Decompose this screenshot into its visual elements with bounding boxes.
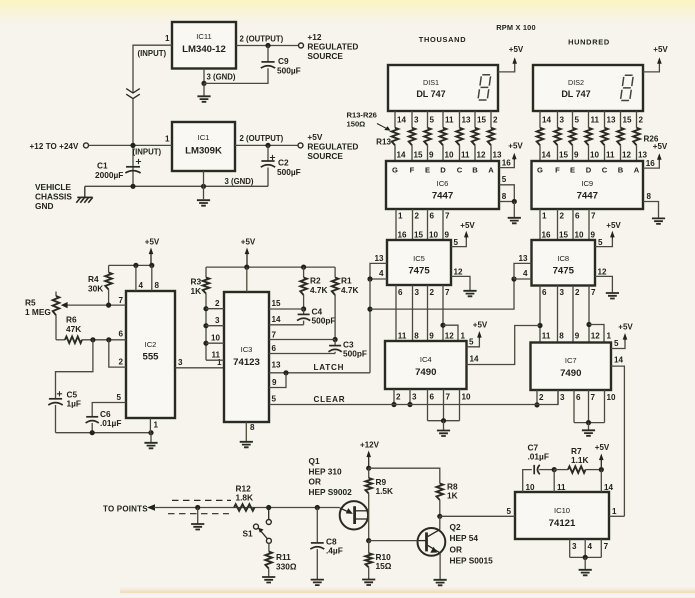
wire IC4 pin3 — [409, 389, 411, 405]
svg-text:1: 1 — [217, 358, 222, 367]
C2 top stub — [267, 145, 269, 161]
wire IC10 pin11 — [553, 470, 555, 492]
wire IC6 pin5 — [499, 185, 514, 202]
svg-text:+5V: +5V — [653, 45, 668, 54]
svg-text:E: E — [570, 165, 575, 174]
svg-text:11: 11 — [398, 332, 407, 341]
junction C8 node — [315, 505, 320, 510]
svg-text:7: 7 — [445, 288, 450, 297]
ground rail regulators — [85, 185, 268, 187]
wire IC9-IC8 column 7-9 — [588, 209, 590, 240]
svg-text:9: 9 — [272, 378, 277, 387]
R4 bottom stub — [108, 290, 110, 306]
wire Q1 base to Q2 — [369, 540, 418, 542]
IC5 7475 — [387, 240, 451, 285]
R3 bottom to pin2 column — [205, 294, 207, 361]
ground IC6 — [508, 218, 521, 224]
svg-text:15: 15 — [559, 231, 569, 240]
svg-text:+5V: +5V — [653, 142, 668, 151]
svg-text:6: 6 — [542, 288, 547, 297]
svg-text:5: 5 — [430, 115, 435, 124]
IC7 7490 — [531, 343, 612, 391]
junction pin1 rail — [148, 430, 153, 435]
svg-text:10: 10 — [211, 333, 221, 342]
+5V arrow IC7 — [623, 333, 628, 341]
junction IC10 gnd — [583, 555, 588, 560]
ground IC1 — [197, 200, 210, 206]
svg-text:+5V: +5V — [595, 443, 610, 452]
svg-text:74123: 74123 — [233, 357, 260, 368]
svg-text:+5V: +5V — [606, 221, 621, 230]
svg-text:F: F — [410, 165, 415, 174]
points wire — [154, 507, 340, 509]
IC10 74121 — [515, 492, 609, 539]
Q2 emitter gnd line — [439, 553, 441, 580]
svg-text:2: 2 — [560, 212, 565, 221]
svg-text:IC9: IC9 — [581, 179, 593, 188]
wire display pin stub R16 top — [442, 111, 444, 128]
svg-text:4: 4 — [588, 542, 593, 551]
ground IC11 — [197, 96, 210, 102]
IC4 gnd bracket — [428, 420, 460, 422]
wire display pin stub R21 top — [557, 111, 559, 128]
svg-text:500µF: 500µF — [277, 167, 301, 177]
svg-text:14: 14 — [604, 483, 614, 492]
svg-text:HUNDRED: HUNDRED — [568, 38, 610, 47]
svg-text:12: 12 — [445, 332, 455, 341]
svg-text:9: 9 — [429, 151, 434, 160]
wire DIS2 +5V — [643, 64, 659, 72]
svg-text:1: 1 — [398, 212, 403, 221]
wire IC8 pin4 — [514, 278, 532, 280]
junction C6 rail — [90, 430, 95, 435]
svg-text:74121: 74121 — [549, 518, 576, 529]
junction C4 pin15 — [301, 306, 306, 311]
resistor R4 30K — [105, 273, 112, 290]
ground IC7 — [582, 430, 595, 436]
resistor R23 150ohm — [585, 128, 592, 145]
+12V arrow — [366, 451, 371, 469]
svg-text:7447: 7447 — [432, 191, 453, 202]
svg-text:2: 2 — [493, 115, 498, 124]
wire IC3 pin2 — [206, 308, 224, 310]
points arrow head — [147, 504, 155, 510]
junction clear IC7 pin2 — [534, 402, 539, 407]
wire resistor R21 to IC9 — [557, 145, 559, 161]
wire IC6-IC5 column 1-16 — [395, 209, 397, 240]
svg-text:+12 TO +24V: +12 TO +24V — [30, 142, 80, 151]
svg-text:10: 10 — [526, 483, 536, 492]
+5V arrow DIS2 — [657, 57, 662, 64]
resistor R19 150ohm — [488, 128, 495, 145]
IC7 gnd stub — [588, 423, 590, 431]
resistor R15 150ohm — [424, 128, 431, 145]
C4 top stub — [303, 309, 305, 314]
svg-text:DIS2: DIS2 — [568, 78, 584, 87]
svg-text:7475: 7475 — [408, 266, 430, 277]
wire IC8 pin12 gnd — [595, 276, 612, 293]
svg-text:+5V: +5V — [473, 320, 488, 329]
svg-text:12: 12 — [454, 268, 464, 277]
svg-text:8: 8 — [647, 192, 652, 201]
svg-text:6: 6 — [576, 393, 581, 402]
R9 top stub — [368, 468, 370, 478]
output terminal +12 — [299, 43, 304, 48]
svg-text:11: 11 — [445, 115, 454, 124]
svg-text:IC3: IC3 — [241, 345, 253, 354]
R5 wiper arrow — [61, 302, 68, 308]
svg-text:8: 8 — [250, 423, 255, 432]
junction IC4 pin12 bracket — [440, 323, 445, 328]
wire IC10 pin4 — [584, 539, 586, 557]
junction IC4 gnd — [441, 418, 446, 423]
svg-text:10: 10 — [462, 393, 472, 402]
svg-text:7: 7 — [591, 288, 596, 297]
display DIS1 DL747 — [388, 65, 498, 111]
wire IC7 pin14 to IC10 pin1 — [611, 366, 624, 516]
wire resistor R17 to IC6 — [459, 145, 461, 161]
Q2 collector line — [439, 516, 441, 529]
+5V arrow IC9 — [657, 153, 662, 160]
wire display pin stub R13 top — [394, 111, 396, 128]
IC3 +5V rail — [206, 266, 335, 268]
junction IC11 gnd node — [201, 81, 206, 86]
wire IC8-IC7 column 6-11 — [539, 286, 541, 343]
capacitor C2 — [261, 155, 275, 167]
wire resistor R22 to IC9 — [572, 145, 574, 161]
wire IC6 pin8 — [499, 201, 514, 203]
svg-text:11: 11 — [461, 151, 470, 160]
svg-text:S1: S1 — [243, 529, 254, 539]
svg-text:7: 7 — [591, 212, 596, 221]
svg-text:5: 5 — [272, 395, 277, 404]
svg-text:G: G — [537, 165, 543, 174]
IC9 7447 — [532, 161, 644, 209]
resistor R10 15ohm — [365, 553, 372, 567]
R9 to Q1 collector line — [368, 494, 370, 541]
capacitor C8 .4uF — [310, 543, 324, 549]
svg-text:5: 5 — [469, 337, 474, 346]
junction pin2 branch — [106, 337, 111, 342]
wire IC4 pin7 to gnd bracket — [443, 389, 445, 421]
wire resistor R18 to IC6 — [474, 145, 476, 161]
wire IC3 pin16 — [246, 267, 248, 292]
junction pin14 +5V — [599, 467, 604, 472]
wire IC8-IC7 column 2-9 — [572, 286, 574, 343]
junction latch node — [367, 307, 372, 312]
output terminal +5V — [298, 143, 303, 148]
wire C2 bottom — [267, 168, 269, 187]
wire resistor R15 to IC6 — [427, 145, 429, 161]
svg-text:DL 747: DL 747 — [416, 89, 445, 99]
wire display pin stub R26 top — [636, 111, 638, 128]
svg-text:IC2: IC2 — [145, 340, 157, 349]
IC2 bottom rail — [56, 432, 152, 434]
latch wire IC3 pin13 — [269, 372, 370, 374]
wire IC2 pin4 — [135, 265, 137, 291]
+5V arrow DIS1 — [512, 57, 517, 64]
wire IC7 pin6 to gnd bracket — [573, 390, 575, 423]
wire C6 to rail — [91, 423, 93, 433]
svg-text:+5V: +5V — [460, 221, 475, 230]
R1 top stub — [334, 267, 336, 277]
svg-text:R121.8K: R121.8K — [236, 484, 254, 503]
svg-text:2: 2 — [215, 299, 220, 308]
svg-text:5: 5 — [575, 115, 580, 124]
svg-text:15: 15 — [477, 115, 487, 124]
wire IC10 pin5 — [440, 515, 515, 517]
wire display pin stub R23 top — [588, 111, 590, 128]
R8 bottom line — [439, 500, 441, 516]
wire IC7 pin10 to gnd bracket — [604, 390, 606, 423]
junction pin10 — [203, 341, 208, 346]
svg-text:6: 6 — [398, 288, 403, 297]
svg-text:13: 13 — [493, 151, 503, 160]
wire IC9-IC8 column 6-10 — [572, 209, 574, 240]
wire IC6 pin16 — [499, 160, 514, 168]
svg-text:LM340-12: LM340-12 — [182, 44, 226, 55]
svg-text:11: 11 — [591, 115, 600, 124]
R5 top stub — [55, 292, 57, 297]
IC3 74123 — [224, 292, 269, 422]
svg-text:1: 1 — [461, 332, 466, 341]
wire IC6-IC5 column 2-15 — [412, 209, 414, 240]
junction IC7 pin12 bracket — [586, 322, 591, 327]
shield dash lower — [168, 513, 229, 515]
transistor Q2 — [418, 528, 446, 556]
svg-text:3: 3 — [215, 316, 220, 325]
svg-text:2: 2 — [430, 288, 435, 297]
R5 bottom lead — [55, 315, 57, 340]
svg-text:15: 15 — [414, 231, 424, 240]
capacitor C1 — [125, 159, 141, 173]
svg-text:+12V: +12V — [360, 441, 380, 450]
wire IC4 pin10 to gnd bracket — [459, 389, 461, 421]
svg-text:14: 14 — [614, 356, 624, 365]
svg-text:9: 9 — [445, 231, 450, 240]
svg-text:7: 7 — [118, 296, 123, 305]
svg-text:15: 15 — [559, 151, 569, 160]
junction rail R2 — [301, 265, 306, 270]
svg-text:+5V: +5V — [618, 322, 633, 331]
svg-text:IC7: IC7 — [565, 356, 577, 365]
C4 bottom stub — [303, 321, 305, 325]
wire pin11 to R7 — [554, 469, 568, 471]
vehicle chassis ground symbol — [76, 186, 92, 203]
R11 top stub — [268, 543, 270, 551]
svg-text:5: 5 — [454, 238, 459, 247]
R10 gnd stub — [368, 567, 370, 579]
svg-text:C1: C1 — [97, 161, 108, 171]
wire DIS1 +5V — [498, 64, 515, 72]
resistor R25 150ohm — [617, 128, 624, 145]
ground IC2 — [144, 443, 157, 449]
junction S1 node — [266, 505, 271, 510]
IC2 +5V rail — [109, 264, 152, 266]
wire IC7 pin3 — [557, 390, 559, 405]
junction rail pin16 — [244, 265, 249, 270]
svg-text:7475: 7475 — [553, 266, 575, 277]
svg-text:8: 8 — [502, 192, 507, 201]
svg-text:15: 15 — [272, 299, 282, 308]
wire input to IC1 pin1 — [89, 144, 172, 146]
wire resistor R19 to IC6 — [490, 145, 492, 161]
capacitor C4 500pF — [297, 314, 310, 320]
svg-text:G: G — [392, 165, 398, 174]
svg-text:5: 5 — [116, 393, 121, 402]
svg-text:3: 3 — [178, 358, 183, 367]
junction pin2 — [203, 306, 208, 311]
svg-text:16: 16 — [502, 158, 512, 167]
svg-text:3: 3 — [415, 288, 420, 297]
svg-text:IC1: IC1 — [198, 133, 210, 142]
ground IC10 — [579, 570, 592, 576]
wire IC10 pin10 to C7 — [523, 470, 532, 492]
svg-text:TO POINTS: TO POINTS — [103, 505, 148, 514]
svg-text:C: C — [457, 165, 463, 174]
wire C7 to pin11 — [539, 469, 554, 471]
junction Q1-Q2 base node — [366, 538, 371, 543]
+5V arrow IC5 — [464, 231, 469, 239]
junction IC1 pin3 ground — [201, 184, 206, 189]
wire IC4 pin6 to gnd bracket — [427, 389, 429, 421]
wire IC4 pin2 — [393, 389, 395, 405]
svg-text:1: 1 — [154, 421, 159, 430]
capacitor C6 .01uF — [86, 417, 99, 423]
wire IC3 pin14 — [269, 324, 304, 326]
svg-text:2 (OUTPUT): 2 (OUTPUT) — [240, 35, 284, 44]
svg-text:555: 555 — [142, 352, 159, 363]
svg-text:14: 14 — [470, 355, 480, 364]
capacitor C9 — [261, 62, 275, 68]
svg-text:C9: C9 — [278, 56, 289, 66]
resistor R9 1.5K — [365, 478, 372, 494]
svg-text:3: 3 — [412, 393, 417, 402]
svg-text:1: 1 — [607, 332, 612, 341]
wire IC5 pin13 — [370, 263, 387, 279]
svg-text:IC6: IC6 — [437, 179, 449, 188]
wire IC8-IC7 column 7-12 — [588, 286, 590, 343]
junction C3 pin7 — [333, 337, 338, 342]
IC4 gnd stub — [443, 421, 445, 431]
IC8 7475 — [532, 240, 596, 286]
junction clear IC4 pin3 — [407, 402, 412, 407]
resistor R12 1.8K — [234, 504, 255, 511]
svg-text:13: 13 — [462, 115, 472, 124]
wire IC7 pin2 — [536, 390, 538, 405]
wire IC2 pin1 — [149, 418, 151, 433]
wire +12V to R8 — [369, 468, 440, 483]
junction R4 pin7 — [106, 303, 111, 308]
+5V arrow IC3 — [245, 248, 250, 268]
+5V arrow IC2 — [149, 248, 154, 266]
svg-text:4: 4 — [139, 281, 144, 290]
svg-text:6: 6 — [575, 212, 580, 221]
wire IC1 pin3 — [203, 171, 205, 186]
svg-text:D: D — [586, 165, 592, 174]
wire IC9 pin16 — [643, 161, 659, 169]
junction points gnd — [195, 505, 200, 510]
svg-text:2: 2 — [539, 393, 544, 402]
wire resistor R23 to IC9 — [588, 145, 590, 161]
IC10 gnd bracket — [570, 556, 602, 558]
wire resistor R14 to IC6 — [411, 145, 413, 161]
resistor R7 1.1K — [568, 466, 586, 473]
capacitor C7 .01uF — [534, 465, 540, 474]
ground R10 — [362, 580, 375, 586]
svg-text:11: 11 — [606, 151, 615, 160]
svg-text:11: 11 — [557, 483, 566, 492]
junction C9 top — [265, 43, 270, 48]
resistor R24 150ohm — [601, 128, 608, 145]
svg-text:1: 1 — [542, 212, 547, 221]
svg-text:DL 747: DL 747 — [561, 89, 590, 99]
junction R8 IC10 pin5 — [437, 514, 442, 519]
ground IC8 pin12 — [606, 293, 619, 299]
C3 bottom stub — [334, 352, 336, 354]
junction pin9 latch — [283, 370, 288, 375]
latch to IC8 wire — [370, 279, 514, 309]
S1 switch — [254, 508, 272, 544]
IC1 LM309K regulator — [172, 122, 235, 171]
R11 gnd stub — [268, 569, 270, 578]
wire IC8-IC7 column 3-8 — [557, 286, 559, 343]
wire IC3 pin7 — [269, 339, 335, 341]
wire IC3 pin10 — [206, 342, 224, 344]
junction C1 ground — [130, 184, 135, 189]
resistor R13 150ohm — [392, 128, 399, 145]
svg-text:B: B — [618, 165, 624, 174]
ground stub IC11 — [203, 83, 205, 96]
svg-text:8: 8 — [559, 332, 564, 341]
svg-text:11: 11 — [542, 332, 551, 341]
wire C5 branch — [56, 340, 93, 399]
wire IC9-IC8 column 1-16 — [539, 209, 541, 240]
svg-text:1: 1 — [165, 135, 170, 144]
wire IC3 pin3 — [206, 325, 224, 327]
svg-text:A: A — [634, 165, 640, 174]
wire IC3 pin11 — [206, 359, 224, 361]
svg-text:C2: C2 — [278, 158, 289, 168]
svg-text:13: 13 — [607, 115, 617, 124]
ground C8 — [311, 580, 324, 586]
wire resistor R20 to IC9 — [539, 145, 541, 161]
wire IC4 pin5 +5V — [467, 339, 480, 347]
svg-text:3: 3 — [560, 393, 565, 402]
svg-text:9: 9 — [591, 231, 596, 240]
wire R7 to pin14 — [586, 469, 602, 471]
junction IC8 pin4-13 — [511, 276, 516, 281]
wire IC10 pin14 — [600, 470, 602, 492]
wire IC10 pin7 — [600, 539, 602, 557]
junction clear IC4 pin2 — [391, 402, 396, 407]
+5V arrow IC8 — [610, 231, 615, 239]
svg-text:(INPUT): (INPUT) — [138, 49, 167, 58]
junction pin8 rail — [149, 263, 154, 268]
svg-text:14: 14 — [397, 151, 407, 160]
wire display pin stub R20 top — [539, 111, 541, 128]
svg-text:C: C — [602, 165, 608, 174]
IC10 gnd stub — [584, 557, 586, 569]
junction input node — [130, 143, 135, 148]
junction IC7 pin11 from IC4 pin14 — [537, 323, 542, 328]
wire IC5 pin4 — [370, 278, 387, 280]
svg-text:7490: 7490 — [560, 368, 581, 379]
svg-text:11: 11 — [211, 350, 220, 359]
wire IC6-IC5 column 7-9 — [442, 209, 444, 240]
resistor R26 150ohm — [633, 128, 640, 145]
svg-text:14: 14 — [542, 151, 552, 160]
